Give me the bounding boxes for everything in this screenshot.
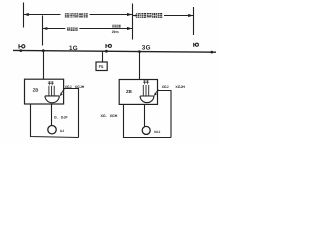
label 主轨道 (67, 27, 78, 31)
svg-text:XGJ: XGJ (162, 85, 169, 89)
svg-text:XGJH: XGJH (75, 85, 85, 89)
wire rail to left transformer (43, 51, 45, 80)
svg-text:ZB: ZB (126, 89, 132, 94)
svg-text:XG.: XG. (101, 114, 107, 118)
svg-text:29m: 29m (112, 30, 119, 34)
wire to relay G (51, 104, 53, 126)
svg-text:XGJ: XGJ (154, 130, 161, 134)
svg-text:GJF: GJF (61, 115, 69, 119)
svg-text:3G: 3G (142, 45, 151, 52)
junction dot right feed (138, 50, 141, 53)
svg-text:XGJ: XGJ (65, 85, 72, 89)
insulated joint right (194, 43, 199, 47)
junction dot right end (210, 51, 213, 54)
tap arrow right (154, 90, 159, 96)
relay coil XGJ (142, 126, 150, 134)
dimension tick middle boundary (132, 4, 134, 40)
wire rail to FS (102, 51, 104, 62)
transformer winding left (45, 81, 59, 103)
label 本轨道电路 (65, 13, 88, 18)
dimension tick left boundary (23, 3, 25, 28)
junction dot middle joint (105, 50, 108, 53)
svg-text:GJ: GJ (60, 129, 64, 133)
box FS (96, 62, 107, 71)
dimension tick right boundary (193, 7, 195, 35)
label 调谐区 (above line) (112, 25, 121, 28)
wire rail to right transformer (139, 52, 141, 80)
wire to relay XGJ (144, 104, 146, 126)
wire relay loop right (124, 104, 172, 137)
relay coil G (48, 126, 56, 134)
wire relay loop left (31, 104, 79, 138)
svg-text:FS: FS (99, 65, 104, 69)
junction dot left feed (42, 49, 45, 52)
svg-text:XGH: XGH (110, 114, 118, 118)
svg-text:G.: G. (54, 115, 58, 119)
dimension tick feed point (42, 16, 44, 46)
svg-text:ZB: ZB (33, 87, 39, 92)
transformer box ZB left (25, 79, 64, 104)
dimension line 邻轨道电路 (133, 14, 193, 17)
rail line (13, 50, 216, 52)
insulated joint left (19, 44, 25, 48)
label 邻轨道电路 (136, 13, 162, 18)
transformer box ZB right (119, 80, 157, 105)
wire XGJ output right (158, 91, 172, 138)
tap arrow left (60, 88, 65, 96)
svg-text:1G: 1G (69, 45, 78, 52)
transformer winding right (140, 80, 154, 102)
junction dot left joint (19, 49, 22, 52)
insulated joint middle (106, 44, 111, 48)
svg-text:XGJH: XGJH (175, 85, 185, 89)
wire XGJ output left (64, 89, 79, 138)
dimension line 主轨道 (43, 27, 133, 30)
dimension line 本轨道电路 (24, 13, 132, 16)
